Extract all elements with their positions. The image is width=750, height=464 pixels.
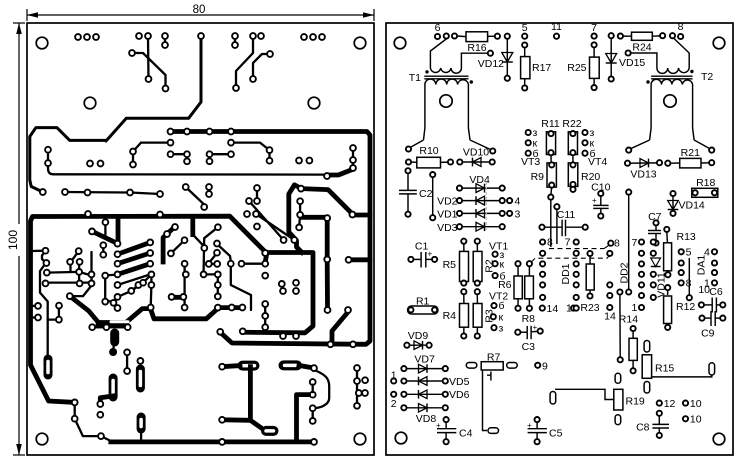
pad capsule j2 bbox=[136, 369, 145, 388]
svg-text:R19: R19 bbox=[626, 396, 645, 408]
svg-text:5: 5 bbox=[522, 22, 528, 34]
wire y307 bbox=[218, 305, 243, 310]
capacitor C11 bbox=[539, 200, 587, 247]
wire h69 bbox=[70, 286, 92, 297]
svg-text:4: 4 bbox=[515, 196, 521, 208]
svg-text:1: 1 bbox=[631, 302, 637, 314]
wire h319 bbox=[48, 318, 57, 320]
transistor VT3 pins bbox=[521, 118, 582, 168]
svg-text:C5: C5 bbox=[549, 428, 563, 440]
capsule h1 bbox=[243, 361, 255, 371]
wire cap h stub bbox=[222, 366, 240, 367]
svg-text:DD2: DD2 bbox=[619, 262, 631, 283]
resistor R14 bbox=[619, 314, 638, 374]
capacitor C8 bbox=[636, 411, 669, 438]
wire pair235 bbox=[234, 36, 236, 45]
node 12 bbox=[657, 401, 662, 406]
IC DD1 bbox=[532, 237, 621, 311]
svg-text:7: 7 bbox=[565, 237, 571, 249]
dashed column line bbox=[485, 182, 487, 232]
diode VD15 bbox=[609, 33, 614, 38]
wire y297 thick bbox=[171, 295, 183, 300]
svg-text:R23: R23 bbox=[580, 302, 599, 314]
svg-text:R9: R9 bbox=[531, 171, 545, 183]
svg-text:з: з bbox=[499, 323, 504, 335]
wire y142b bbox=[231, 143, 270, 151]
wire y217 bbox=[302, 215, 327, 220]
board outline bbox=[386, 23, 733, 455]
diode VD6 bbox=[391, 389, 470, 410]
svg-text:9: 9 bbox=[542, 360, 548, 372]
wire v327 bbox=[325, 221, 330, 258]
wire v151b bbox=[150, 285, 153, 308]
svg-text:VD9: VD9 bbox=[408, 330, 429, 342]
svg-text:VD15: VD15 bbox=[619, 57, 645, 69]
diode VD10 bbox=[462, 147, 494, 167]
resistor R19 bbox=[550, 373, 645, 424]
wire snake40 bbox=[40, 263, 48, 356]
svg-text:VD5: VD5 bbox=[449, 376, 470, 388]
wire mesh2 bbox=[42, 251, 46, 263]
resistor R13 bbox=[664, 227, 696, 278]
svg-text:R24: R24 bbox=[632, 42, 651, 54]
wire tent bbox=[70, 296, 148, 322]
svg-text:C3: C3 bbox=[522, 341, 536, 353]
diode VD14 bbox=[668, 191, 705, 216]
svg-text:R6: R6 bbox=[498, 279, 512, 291]
capacitor C10 bbox=[591, 182, 610, 219]
wire v141 bbox=[140, 429, 142, 442]
diode VD8 bbox=[401, 404, 448, 426]
wire diag104 bbox=[93, 232, 116, 243]
wire h300 bbox=[105, 300, 113, 303]
wire v79 bbox=[78, 262, 80, 283]
resistor R22 bbox=[568, 132, 577, 155]
wire mesh4 bbox=[47, 281, 91, 283]
svg-text:80: 80 bbox=[193, 4, 206, 16]
dimension 80 top bbox=[27, 3, 374, 21]
wire v299 bbox=[299, 215, 300, 228]
IC DA1 bbox=[679, 247, 718, 301]
wire diag175 bbox=[163, 228, 173, 262]
pad capsule j5 black bbox=[110, 333, 119, 342]
wire diag186 bbox=[186, 187, 204, 204]
resistor R20 bbox=[568, 163, 578, 187]
node 10b bbox=[683, 416, 688, 421]
wire diag117 bbox=[118, 291, 132, 297]
svg-text:R12: R12 bbox=[676, 301, 695, 313]
wire mid bottom bbox=[112, 344, 115, 352]
wire bottom1 bbox=[75, 402, 111, 441]
wire L296 bbox=[297, 395, 309, 441]
wire pair154a bbox=[171, 154, 188, 161]
svg-text:R17: R17 bbox=[532, 62, 551, 74]
svg-text:8: 8 bbox=[678, 21, 684, 33]
svg-text:VD14: VD14 bbox=[679, 200, 705, 212]
svg-text:C8: C8 bbox=[636, 422, 650, 434]
wire mesh1 bbox=[32, 250, 46, 253]
resistor R9 bbox=[547, 163, 556, 187]
capsule h2 bbox=[266, 426, 274, 436]
pad capsule j1 bbox=[44, 359, 53, 375]
wire curve314 bbox=[316, 371, 330, 409]
transistor VT4 pins bbox=[582, 127, 607, 168]
wire node column bbox=[430, 172, 435, 177]
wire v265 bbox=[264, 304, 266, 327]
wire mesh6b bbox=[209, 253, 217, 264]
transistor VT2 pins bbox=[489, 291, 508, 335]
wire bottom bus bbox=[111, 439, 314, 444]
svg-text:VD8: VD8 bbox=[416, 413, 437, 425]
wire diag par1 bbox=[118, 242, 151, 254]
wire big top loop bbox=[106, 38, 201, 141]
resistor R8 bbox=[522, 261, 536, 325]
wire v91 bbox=[90, 252, 92, 283]
svg-text:б: б bbox=[499, 300, 505, 312]
wire cross2 bbox=[132, 53, 166, 89]
wire v257 bbox=[256, 188, 258, 201]
resistor R18 bbox=[692, 177, 718, 197]
wire long vertical bbox=[617, 190, 631, 363]
wire diag113 bbox=[114, 303, 118, 308]
resistor R5 bbox=[443, 239, 469, 286]
svg-text:14: 14 bbox=[604, 311, 616, 323]
wire diag131b bbox=[131, 285, 138, 291]
wire v204 bbox=[204, 227, 218, 272]
diode VD13 bbox=[625, 159, 662, 181]
wire cluster right bbox=[357, 368, 365, 406]
wire v127 bbox=[126, 352, 128, 371]
wire diag70 bbox=[71, 251, 79, 271]
resistor R1 bbox=[408, 296, 439, 315]
svg-text:100: 100 bbox=[6, 230, 20, 250]
wire diag4 bbox=[118, 274, 151, 285]
svg-text:5: 5 bbox=[686, 247, 692, 259]
svg-text:DD1: DD1 bbox=[560, 263, 572, 284]
wire t2b bbox=[253, 54, 270, 79]
wire v184 bbox=[183, 264, 185, 308]
svg-text:R5: R5 bbox=[443, 259, 457, 271]
diode VD9 bbox=[404, 330, 431, 350]
capacitor C7 bbox=[648, 211, 662, 246]
capacitor C2 bbox=[399, 168, 433, 217]
wire stack353 bbox=[352, 148, 354, 168]
svg-text:C11: C11 bbox=[557, 209, 576, 221]
capacitor C6 bbox=[699, 286, 726, 313]
svg-text:R22: R22 bbox=[562, 118, 581, 130]
wire v59 bbox=[58, 306, 60, 320]
resistor R2 bbox=[473, 239, 495, 286]
svg-text:к: к bbox=[500, 259, 505, 271]
capacitor C9 bbox=[699, 311, 725, 340]
svg-text:R15: R15 bbox=[655, 363, 674, 375]
wire y142 bbox=[141, 141, 171, 143]
resistor R3 bbox=[473, 289, 495, 339]
svg-text:C4: C4 bbox=[459, 428, 473, 440]
copper traces (thick) bbox=[30, 38, 370, 442]
wire v193 bbox=[190, 219, 195, 235]
node col313 bbox=[310, 379, 316, 385]
wire diag133 bbox=[133, 143, 141, 152]
pads: through-hole junctions of copper traces bbox=[35, 33, 368, 445]
wire y173 long bbox=[48, 166, 327, 175]
svg-text:R4: R4 bbox=[443, 310, 457, 322]
wire mesh6d bbox=[231, 264, 251, 310]
wire v118 bbox=[116, 218, 121, 240]
wire cap3 bbox=[299, 365, 314, 368]
svg-text:11: 11 bbox=[551, 21, 562, 33]
wire top bus y131.5 bbox=[170, 132, 370, 345]
svg-text:12: 12 bbox=[664, 398, 676, 410]
svg-text:C9: C9 bbox=[701, 328, 715, 340]
wire v269 bbox=[268, 150, 270, 161]
diode VD2 bbox=[437, 196, 520, 208]
svg-text:VD7: VD7 bbox=[414, 354, 435, 366]
wire t2a bbox=[236, 38, 253, 88]
capacitor C4 bbox=[436, 417, 473, 444]
wire diag170 bbox=[171, 240, 185, 253]
board outline bbox=[27, 23, 374, 455]
svg-text:+: + bbox=[592, 196, 597, 205]
wire v151 bbox=[150, 274, 152, 285]
wire tent2 bbox=[150, 309, 217, 319]
svg-text:VD13: VD13 bbox=[630, 169, 656, 181]
wire diag249 bbox=[249, 201, 284, 240]
svg-text:4: 4 bbox=[704, 247, 710, 259]
wire v88 bbox=[88, 214, 160, 217]
resistor R10 bbox=[406, 145, 463, 168]
resistor R4 bbox=[443, 289, 469, 339]
svg-text:R25: R25 bbox=[567, 62, 586, 74]
diode VD4 bbox=[457, 174, 505, 193]
wire v105 bbox=[104, 276, 106, 302]
svg-text:VD3: VD3 bbox=[437, 222, 458, 234]
svg-text:R14: R14 bbox=[619, 314, 638, 326]
wire y192 row bbox=[65, 192, 160, 194]
resistor R15 bbox=[642, 341, 714, 394]
wire bus y252 bbox=[246, 253, 313, 333]
node 9 bbox=[535, 363, 540, 368]
svg-text:R10: R10 bbox=[419, 145, 438, 157]
wire loop left bbox=[289, 185, 302, 253]
transistor VT1 pins bbox=[489, 241, 508, 283]
wire j3 L bbox=[100, 396, 113, 404]
svg-text:C2: C2 bbox=[419, 188, 433, 200]
svg-text:VD2: VD2 bbox=[437, 196, 458, 208]
wire diag348 bbox=[332, 312, 348, 344]
resistor R21 bbox=[665, 147, 714, 168]
capacitor C3 bbox=[515, 323, 543, 353]
wire y327 bbox=[92, 326, 128, 328]
wire diag par2 bbox=[118, 253, 151, 264]
svg-text:2: 2 bbox=[391, 398, 397, 410]
svg-text:3: 3 bbox=[515, 209, 521, 221]
IC DD2 bbox=[604, 237, 656, 323]
svg-text:VD12: VD12 bbox=[478, 58, 504, 70]
svg-text:10: 10 bbox=[690, 398, 702, 410]
diode VD1 bbox=[437, 209, 520, 221]
resistor R24 bbox=[618, 34, 623, 39]
transformer T1 bbox=[406, 38, 495, 154]
svg-text:C6: C6 bbox=[709, 286, 723, 298]
diode VD5 bbox=[391, 370, 470, 388]
resistor R16 bbox=[466, 32, 488, 42]
transformer T2 bbox=[626, 39, 715, 153]
pad capsule j3 bbox=[109, 378, 118, 397]
wire mesh3 bbox=[47, 272, 91, 276]
wire diag143 bbox=[143, 274, 151, 282]
svg-text:VT4: VT4 bbox=[588, 156, 607, 168]
wire v209 bbox=[208, 187, 210, 194]
pad capsule j4 bbox=[137, 417, 146, 429]
wire diag par3 bbox=[118, 264, 151, 275]
wire diag131 bbox=[131, 283, 143, 291]
resistor R12 bbox=[664, 285, 696, 330]
wire T cap bbox=[222, 367, 266, 431]
wire h274 bbox=[105, 273, 117, 276]
node 14 bbox=[540, 306, 545, 311]
capsule pads bbox=[48, 333, 329, 441]
wire v327b bbox=[325, 262, 330, 307]
svg-text:R18: R18 bbox=[696, 177, 715, 189]
wire mesh6e bbox=[242, 263, 266, 265]
resistor R17 bbox=[524, 48, 526, 57]
wire loop right bbox=[301, 189, 352, 214]
svg-text:8: 8 bbox=[547, 237, 553, 249]
svg-text:T1: T1 bbox=[409, 72, 421, 84]
svg-text:R21: R21 bbox=[681, 147, 700, 159]
svg-text:T2: T2 bbox=[701, 71, 713, 83]
svg-text:7: 7 bbox=[631, 237, 637, 249]
wire mesh6c bbox=[204, 274, 218, 296]
resistor R6 bbox=[498, 261, 522, 311]
mounting holes bbox=[394, 37, 406, 49]
diode VD11 bbox=[651, 258, 668, 298]
diode VD3 bbox=[437, 222, 505, 234]
svg-text:6: 6 bbox=[435, 22, 441, 34]
trimmer R7 bbox=[466, 352, 517, 434]
wire cross1 bbox=[147, 38, 150, 79]
resistor R23 bbox=[580, 251, 599, 314]
wire stubs bbox=[32, 306, 36, 318]
svg-text:14: 14 bbox=[547, 303, 559, 315]
svg-text:7: 7 bbox=[591, 22, 597, 34]
wire pair165 bbox=[164, 36, 166, 45]
wire y215 stub bbox=[354, 213, 370, 218]
mounting holes bbox=[36, 37, 48, 49]
wire v300 bbox=[299, 201, 301, 215]
svg-text:8: 8 bbox=[614, 238, 620, 250]
diode VD12 bbox=[506, 39, 508, 76]
node 10a bbox=[683, 401, 688, 406]
wire diag256 bbox=[256, 214, 294, 240]
svg-text:R11: R11 bbox=[541, 118, 560, 130]
svg-text:C1: C1 bbox=[415, 241, 429, 253]
capacitor C1 bbox=[408, 241, 437, 268]
svg-text:VT3: VT3 bbox=[521, 156, 540, 168]
wire hat bend bbox=[30, 128, 106, 192]
svg-text:+: + bbox=[428, 250, 433, 259]
capsule h3 bbox=[284, 360, 298, 370]
svg-text:VD10: VD10 bbox=[463, 147, 489, 159]
resistor R25 bbox=[593, 48, 595, 58]
capacitor C5 bbox=[527, 417, 563, 444]
wire v48 bbox=[47, 150, 49, 163]
wire y216 bus bbox=[31, 216, 267, 402]
wire y296 bbox=[172, 296, 184, 298]
svg-text:10: 10 bbox=[690, 414, 702, 426]
diode VD7 bbox=[401, 354, 448, 373]
copper traces (thin) bbox=[32, 36, 366, 442]
wire mesh6a bbox=[217, 244, 231, 261]
wire v103 bbox=[102, 245, 104, 255]
dimension 100 left bbox=[6, 23, 25, 455]
resistor R11 bbox=[546, 132, 555, 155]
svg-text:VD6: VD6 bbox=[449, 389, 470, 401]
svg-text:VD1: VD1 bbox=[437, 209, 458, 221]
svg-text:R13: R13 bbox=[677, 231, 696, 243]
wire v133 bbox=[132, 152, 134, 165]
svg-text:R16: R16 bbox=[467, 42, 486, 54]
wire pair154b bbox=[210, 154, 232, 161]
wire y259 stub bbox=[351, 257, 370, 262]
